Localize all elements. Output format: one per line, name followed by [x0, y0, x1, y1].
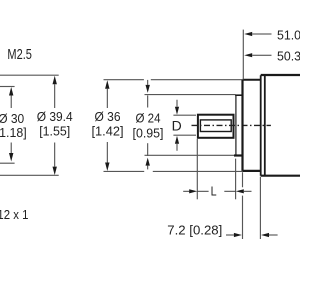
svg-text:M2.5: M2.5: [7, 47, 32, 63]
Ø36 section top edge: [243, 79, 261, 81]
dimension Ø39.4 top witness line: [0, 74, 59, 76]
dimension L line right segment: [224, 190, 235, 192]
dimension 7.2 right outside arrow: [261, 233, 269, 237]
svg-text:Ø 30: Ø 30: [0, 111, 24, 126]
dimension L right outside arrow: [236, 189, 244, 193]
dimension Ø24 leader to text: [147, 95, 149, 107]
housing step vertical B: [264, 75, 266, 176]
dimension Ø24 top outside arrow: [147, 80, 149, 85]
Ø24 stub bottom edge: [234, 154, 243, 156]
dimension Ø30 bottom arrow: [10, 143, 12, 154]
dimension 7.2 left extension line (broken where L arrow tail crosses): [242, 172, 244, 239]
svg-text:M12 x 1: M12 x 1: [0, 207, 28, 222]
dimension Ø24 bottom outside arrow: [147, 143, 149, 156]
dimension Ø39.4 top arrow: [53, 76, 57, 85]
dimension Ø30 bottom witness line: [0, 162, 15, 164]
Ø24 stub front face: [235, 95, 237, 156]
svg-text:D: D: [172, 118, 182, 134]
dimension Ø36 top witness line (two segments with gap at Ø24 line): [104, 79, 243, 81]
dimension D top witness line: [173, 114, 196, 116]
svg-text:[0.95]: [0.95]: [133, 125, 164, 140]
svg-text:51.0: 51.0: [277, 27, 300, 42]
svg-text:[1.55]: [1.55]: [39, 124, 70, 139]
housing top edge: [261, 74, 300, 76]
dimension 51.0 arrow and line: [244, 32, 252, 36]
svg-text:Ø 36: Ø 36: [95, 109, 121, 124]
Ø36 section front face: [241, 80, 243, 171]
dimension Ø39.4 bottom witness line: [0, 174, 59, 176]
dimension Ø39.4 bottom arrow: [54, 143, 56, 167]
svg-text:7.2 [0.28]: 7.2 [0.28]: [167, 223, 222, 238]
spline shaft inner outline: [200, 120, 231, 132]
svg-text:50.3: 50.3: [277, 48, 300, 63]
dimension Ø36 top arrow: [105, 80, 109, 89]
dimension L left outside arrow: [183, 190, 189, 192]
dimension 7.2 left outside arrow: [226, 234, 234, 236]
dimension D bottom witness line: [173, 134, 196, 136]
dimension Ø30 top arrow: [9, 87, 13, 96]
spline shaft outer outline: [198, 115, 234, 138]
dimension 51.0/50.3 extension line: [242, 30, 244, 80]
dimension D top outside arrow: [176, 100, 178, 107]
dimension L line left segment: [197, 190, 208, 192]
svg-text:[1.18]: [1.18]: [0, 125, 27, 140]
dimension L left extension line: [196, 139, 198, 199]
shaft centerline (dash-dot): [192, 124, 271, 126]
dimension 50.3 arrow and line: [244, 53, 252, 57]
dimension Ø30 top witness line: [0, 86, 15, 88]
svg-text:Ø 39.4: Ø 39.4: [37, 109, 73, 124]
Ø24 cylinder bottom witness line: [145, 154, 235, 156]
Ø36 section bottom edge: [243, 170, 261, 172]
svg-text:L: L: [211, 183, 217, 198]
dimension Ø36 bottom arrow: [106, 142, 108, 163]
dimension D bottom outside arrow: [175, 136, 179, 144]
svg-text:[1.42]: [1.42]: [92, 124, 124, 139]
svg-text:Ø 24: Ø 24: [136, 111, 161, 126]
housing bottom edge: [261, 175, 300, 177]
Ø24 cylinder top witness line: [145, 94, 236, 96]
housing step vertical A: [260, 75, 262, 176]
Ø24 stub top edge: [235, 94, 242, 96]
dimension 7.2 right extension line: [259, 177, 261, 239]
dimension Ø36 bottom witness line (two segments with gap at Ø24 line): [104, 170, 243, 172]
dimension L right extension line: [235, 159, 237, 200]
